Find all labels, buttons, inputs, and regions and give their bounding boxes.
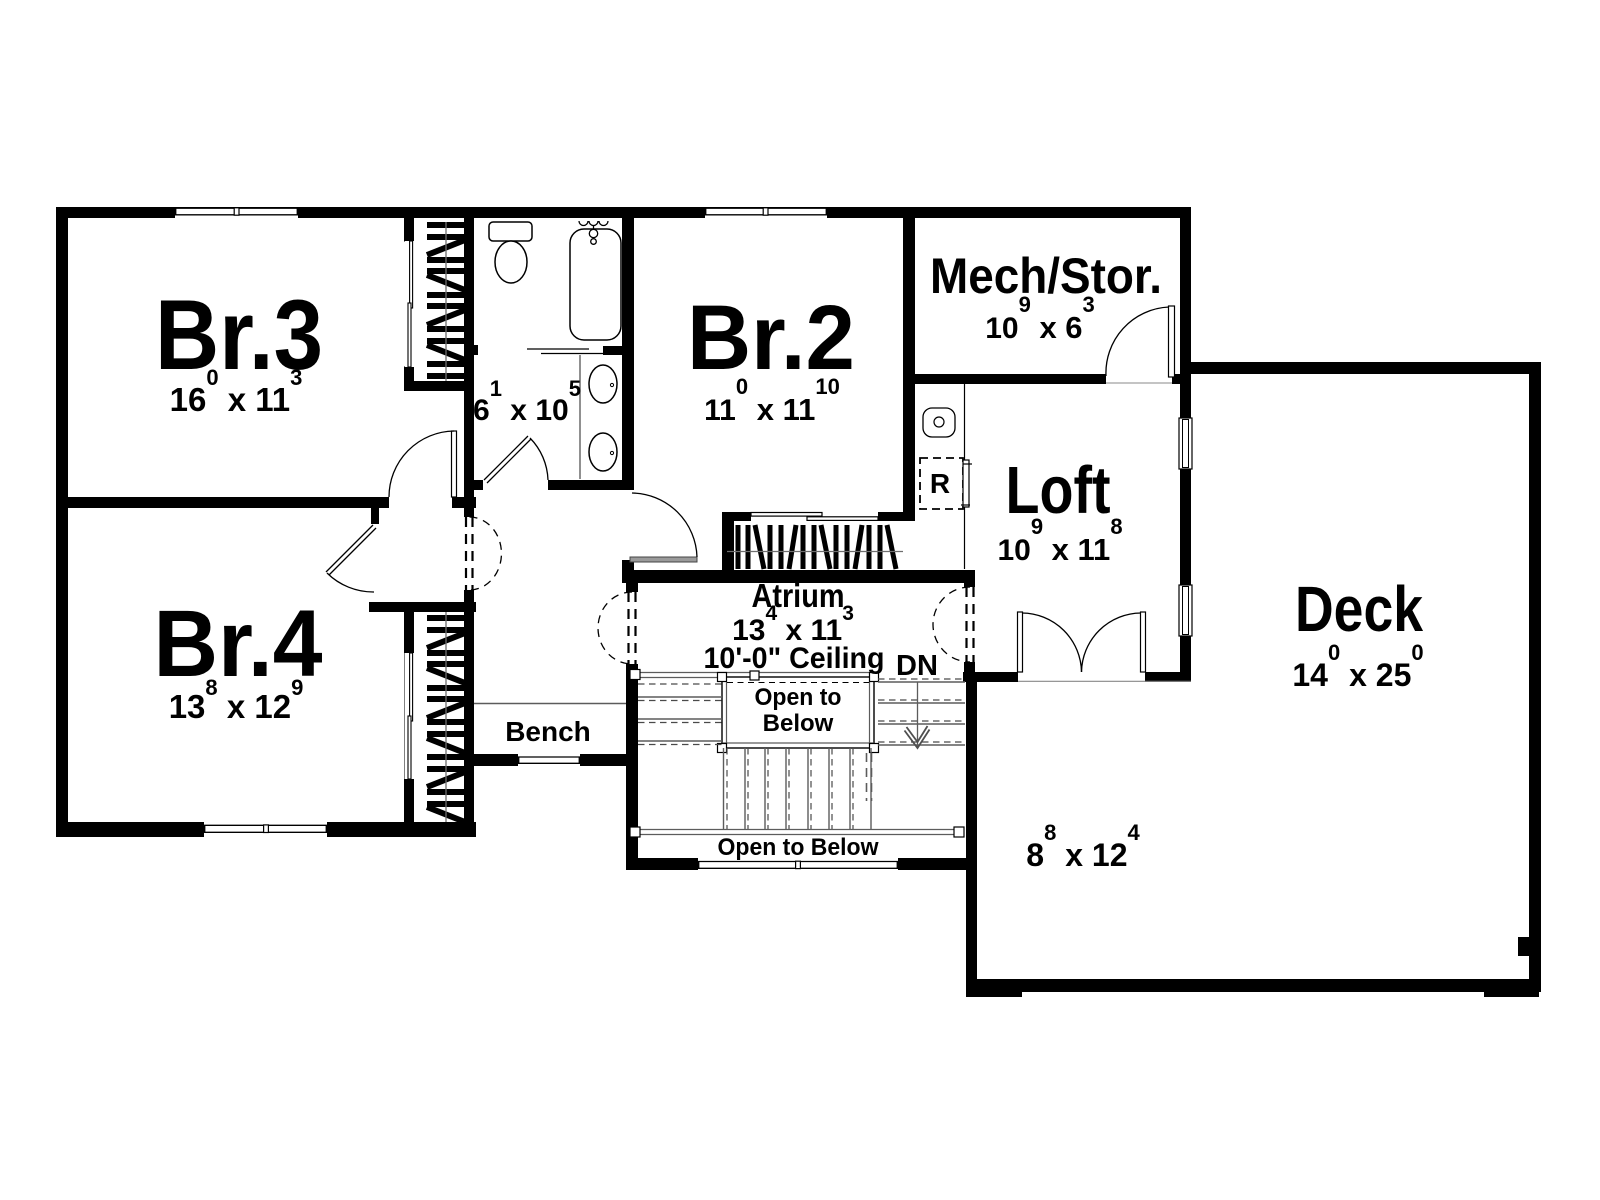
lower flight treads [745,748,850,829]
atrium railing top [634,673,875,678]
svg-text:DN: DN [896,650,938,682]
wall atrium top [622,570,975,583]
wall deck right [1529,362,1541,992]
svg-text:Bench: Bench [505,716,591,747]
wall Mech bottom right stub [1172,374,1191,384]
opening vestibule-bench arc [470,517,502,590]
wall Mech bottom [903,374,1106,384]
door Mech leaf [1169,306,1175,377]
wall bath pier [464,345,478,355]
svg-text:Open to Below: Open to Below [718,834,879,861]
opening atrium-loft arc [933,587,970,662]
window stairwell bottom [698,858,898,870]
wall Br.2 left lower stub [622,560,634,583]
wall east exterior [1180,207,1191,682]
wall atrium stair left [626,583,638,592]
kitchen sink [923,408,955,437]
closet Br.3 sliding door [405,241,415,367]
window Br.2 top [705,208,827,219]
door bath leaf [484,436,531,483]
door bath arc [530,438,548,480]
loft door threshold line [1018,680,1191,682]
deck post right [1484,992,1539,997]
wall bath bottom left piece [464,480,483,490]
closet Br.3 hatch [427,225,465,376]
door loft french left leaf [1018,612,1023,672]
wall Br.4 closet left [404,612,414,822]
fridge handle [963,460,969,507]
dashed rail continuation below landing [867,753,872,801]
wall 8x12 deck left [966,682,977,992]
closet Br.4 hatch [427,618,465,822]
window loft east lower [1179,585,1192,636]
door Br.3 arc [389,431,454,497]
wall bench bottom exterior [464,754,638,766]
wall bath left upper [464,218,474,517]
lower flight stringers [723,748,725,829]
wall Br.2 bottom closet front [722,512,915,521]
svg-text:10'-0" Ceiling: 10'-0" Ceiling [704,642,885,675]
window loft east upper [1179,418,1192,469]
wall deck top [1191,362,1541,374]
door loft french left arc [1022,613,1082,672]
bench counter line [474,703,626,705]
mech door threshold line [1106,382,1172,384]
wall Loft left upper stub [964,570,975,587]
door Mech arc [1106,307,1169,376]
door Br.3 leaf [452,431,457,497]
counter edge [964,384,966,569]
upper flight treads left [638,697,722,741]
svg-text:Deck: Deck [1295,573,1423,645]
deck wall notch [1518,937,1529,956]
DN arrow [917,682,919,748]
door loft french right arc [1082,613,1142,672]
wall Loft bottom left piece [963,672,1018,682]
door loft french right leaf [1141,612,1146,672]
door Br.4 leaf [326,525,376,575]
svg-text:Open to: Open to [755,684,842,711]
wall vestibule left stub [371,504,379,524]
door Br.2 leaf [630,557,697,562]
vanity counter [527,349,604,354]
tub [570,229,621,340]
wall Br.2 closet left side [722,521,734,570]
svg-text:R: R [930,468,950,499]
wall Br.2 right Mech left [903,218,915,521]
vanity front [579,355,581,479]
opening bench-atrium jambs [629,592,636,664]
opening bench-atrium arc [598,592,632,664]
door Br.2 arc [632,493,697,557]
wall left exterior [56,207,68,837]
wall bath bottom right piece [548,480,634,490]
fridge R dashed [920,458,963,509]
DN treads [878,682,965,745]
window Br.3 top [175,208,298,219]
closet Br.2 rod [727,551,903,553]
wall Br.3 bottom interior [56,497,389,508]
railing posts [630,670,640,680]
deck post left [966,992,1022,997]
wall vestibule bottom [369,602,476,612]
wall Br.3 bottom right piece [452,497,476,508]
wall deck bottom [966,979,1541,992]
wall top exterior [56,207,1191,218]
wall Loft left lower stub [964,662,975,682]
window Br.4 bottom [204,822,327,837]
sink lower [589,433,617,471]
svg-text:Below: Below [763,710,834,737]
svg-text:Mech/Stor.: Mech/Stor. [930,248,1162,304]
wall stairwell bottom exterior [626,858,977,870]
sink upper [589,365,617,403]
closet Br.2 sliding panels [751,512,878,521]
toilet tank [489,222,532,241]
closet Br.4 sliding door [405,653,415,779]
window bench bottom [518,754,580,766]
toilet bowl [495,241,527,283]
closet Br.3 rod [445,222,447,381]
opening vestibule-bench jambs [466,517,473,590]
svg-text:Loft: Loft [1006,453,1111,528]
tub faucet [579,221,608,244]
wall Br.4 bottom exterior [56,822,476,837]
opening atrium-loft jambs [967,587,974,662]
wall Br.3 closet bottom [404,381,474,391]
door Br.4 arc [327,573,374,592]
closet Br.4 rod [445,612,447,822]
open to below box [722,677,874,748]
bottom railing [634,830,963,835]
wall closet column lower [464,590,474,837]
closet Br.2 hatch [738,525,896,569]
wall Loft bottom right piece [1145,672,1191,682]
wall Br.3 closet left [404,218,414,242]
wall bath right Br.2 left [622,218,634,490]
